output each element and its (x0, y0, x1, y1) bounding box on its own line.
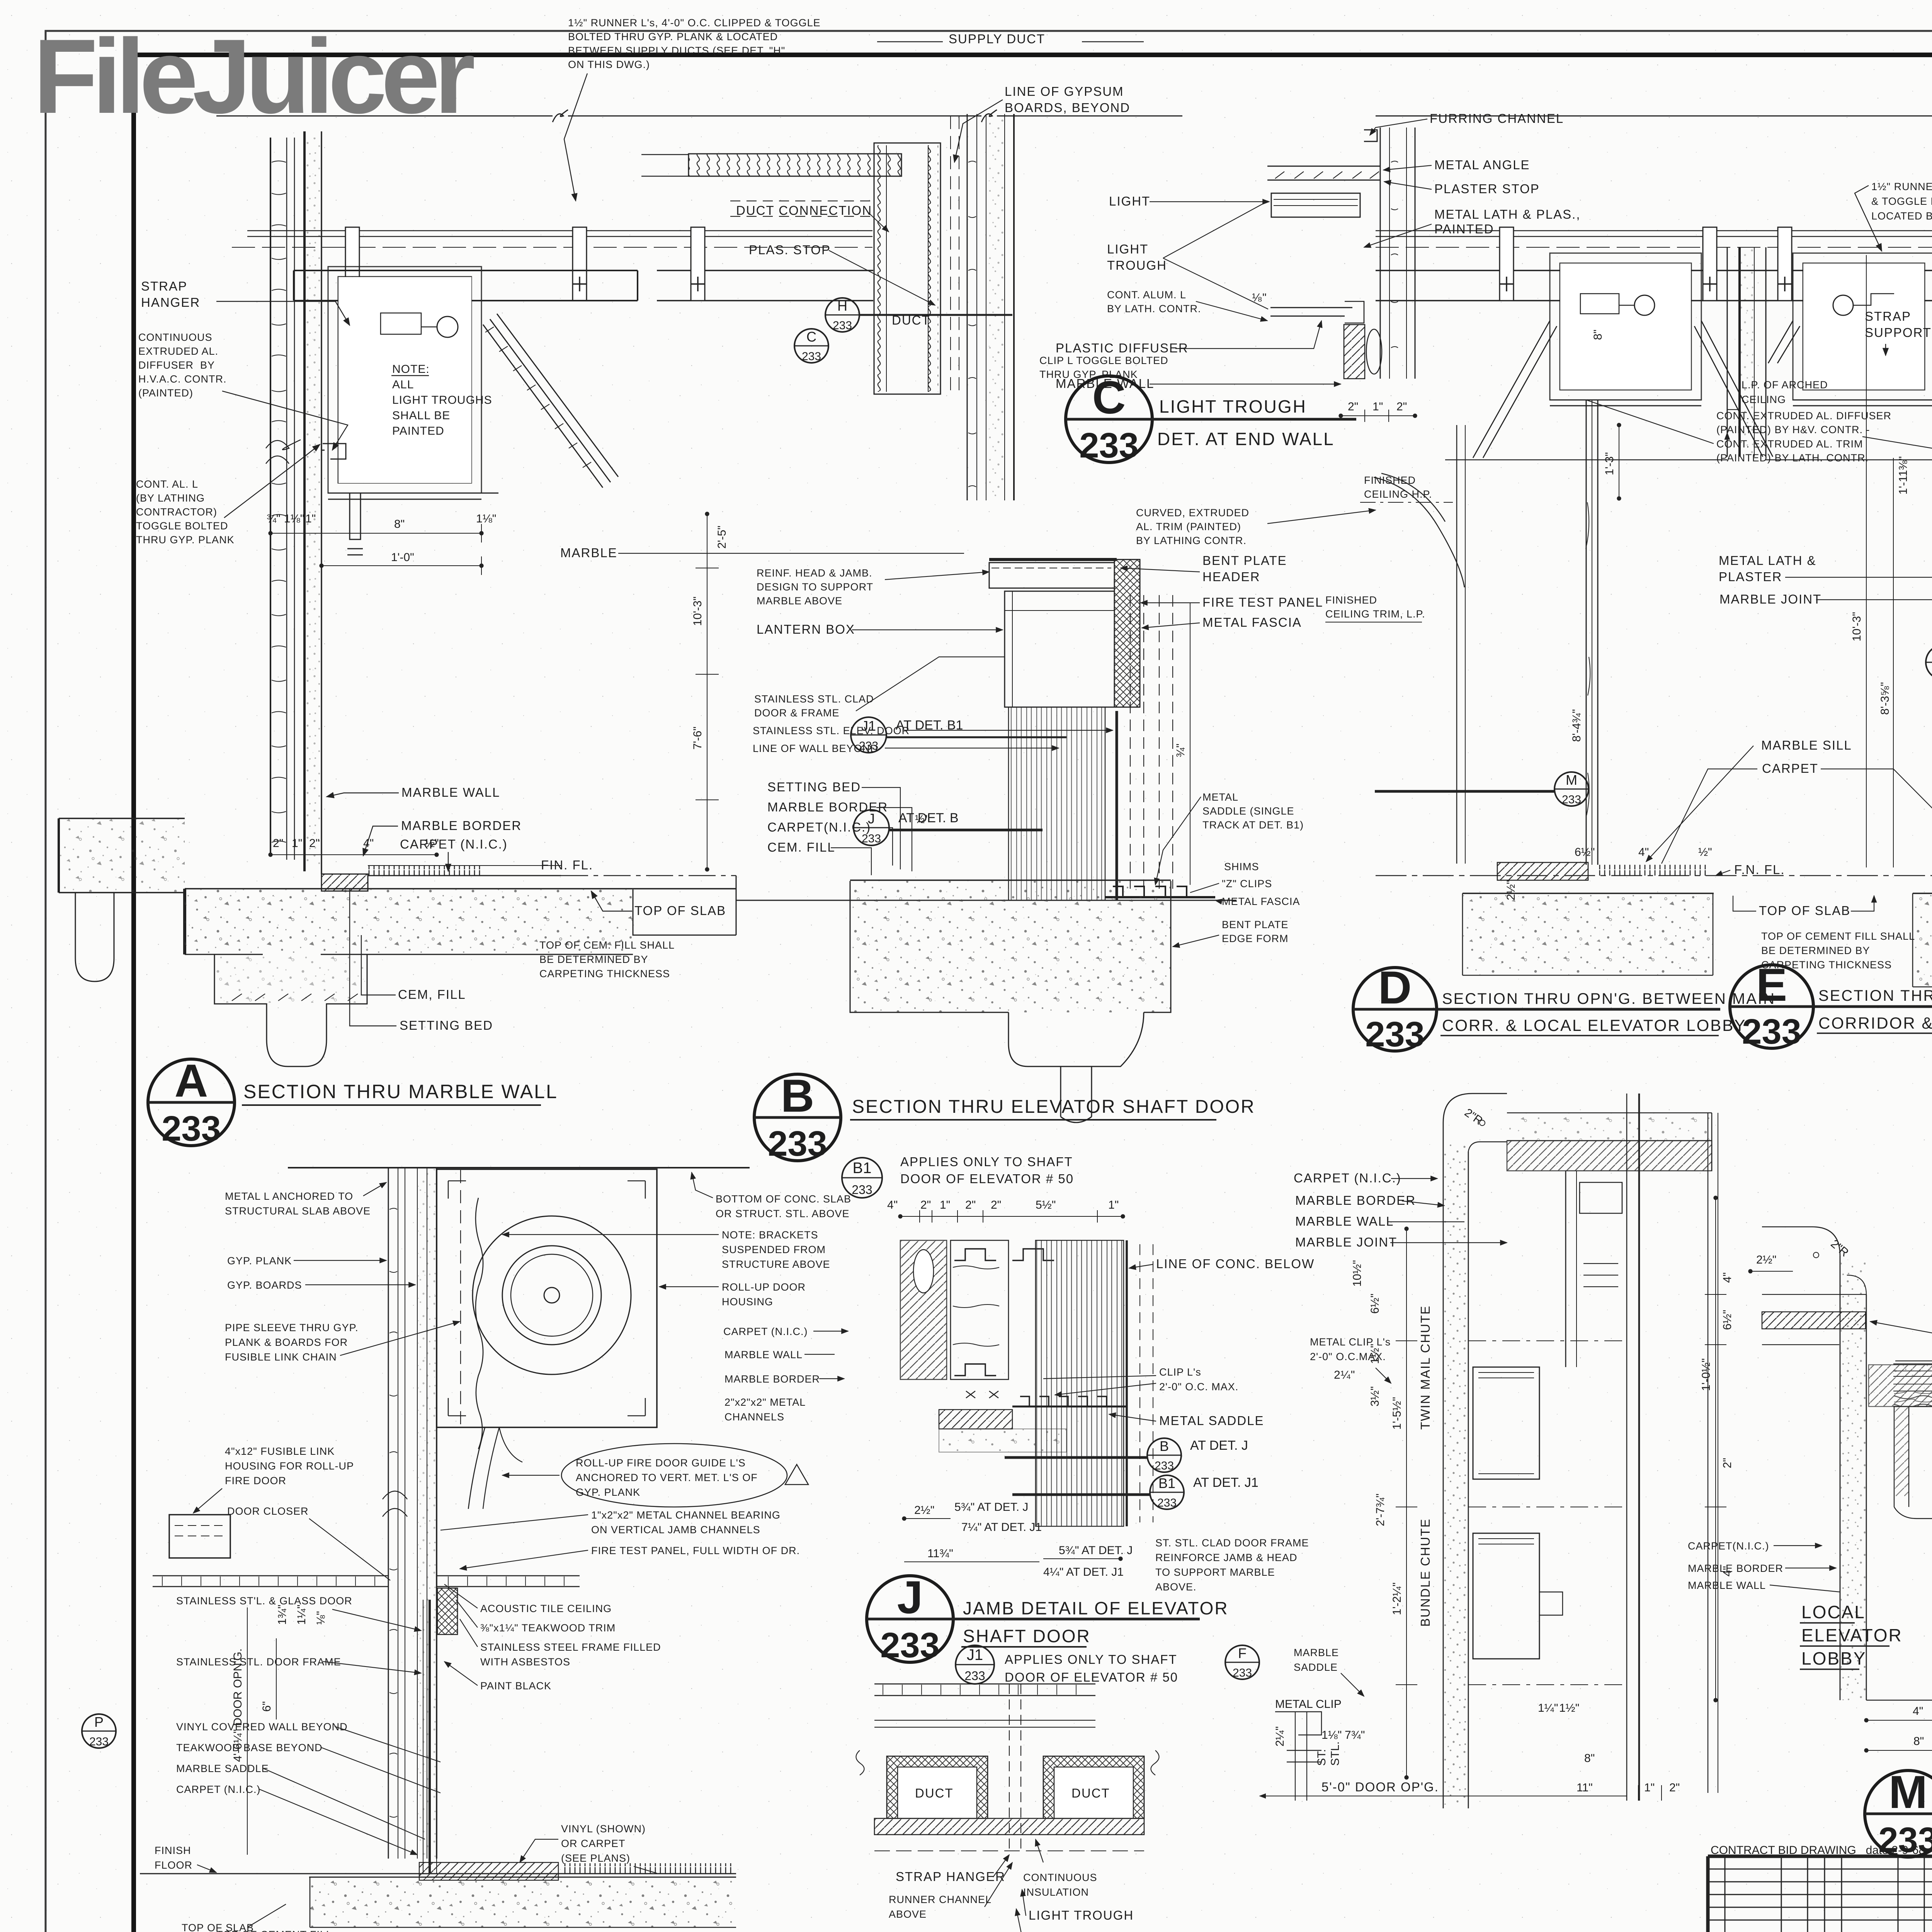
svg-text:LIGHT TROUGHS: LIGHT TROUGHS (392, 394, 492, 406)
svg-text:1½" RUNNER L's, 4'-0" O.C. CLI: 1½" RUNNER L's, 4'-0" O.C. CLIPPED & TOG… (568, 17, 821, 29)
marble bits below (939, 1410, 1012, 1429)
ref circle B at det J (1005, 1438, 1248, 1472)
left label column (136, 279, 350, 546)
svg-text:⅛": ⅛" (315, 1611, 327, 1625)
svg-text:CONT. ALUM. L: CONT. ALUM. L (1107, 289, 1186, 301)
marble sill left (1762, 1312, 1866, 1329)
svg-text:8": 8" (394, 518, 405, 531)
svg-text:METAL SADDLE: METAL SADDLE (1159, 1413, 1264, 1428)
detail circle C (1066, 372, 1356, 465)
svg-text:DESIGN TO SUPPORT: DESIGN TO SUPPORT (757, 581, 873, 593)
light trough box A (328, 267, 481, 499)
svg-text:CLIP L's: CLIP L's (1159, 1366, 1201, 1378)
svg-text:ALL: ALL (392, 378, 414, 391)
svg-text:BENT PLATE: BENT PLATE (1202, 553, 1287, 568)
dimension row under trough (270, 524, 481, 575)
vertical dims left (1406, 1229, 1407, 1777)
svg-text:ROLL-UP DOOR: ROLL-UP DOOR (722, 1281, 806, 1293)
marble wall A: vertical strips (270, 131, 321, 874)
svg-text:1": 1" (940, 1199, 950, 1211)
svg-text:LIGHT: LIGHT (1107, 242, 1148, 256)
svg-text:& TOGGLE BOLTED THRU GYPSUM PL: & TOGGLE BOLTED THRU GYPSUM PLANK AND (1871, 196, 1932, 207)
svg-text:FUSIBLE LINK CHAIN: FUSIBLE LINK CHAIN (225, 1351, 337, 1363)
svg-text:(SEE PLANS): (SEE PLANS) (561, 1852, 630, 1864)
right labels (1121, 553, 1425, 947)
detail circle H (777, 1931, 1048, 1932)
svg-text:BENT PLATE: BENT PLATE (1222, 919, 1289, 930)
svg-text:ROLL-UP FIRE DOOR GUIDE L'S: ROLL-UP FIRE DOOR GUIDE L'S (576, 1457, 746, 1469)
svg-text:GYP. PLANK: GYP. PLANK (227, 1255, 292, 1267)
right labels for ceiling zone (444, 1584, 661, 1692)
svg-text:4": 4" (1638, 846, 1649, 859)
svg-text:B: B (1160, 1438, 1169, 1454)
gypsum boards dashed verticals (951, 116, 959, 390)
svg-text:CORRIDOR & CROSS CORRIDOR: CORRIDOR & CROSS CORRIDOR (1818, 1014, 1932, 1032)
left D wall pieces (1457, 425, 1465, 864)
svg-text:MARBLE BORDER: MARBLE BORDER (1295, 1193, 1416, 1207)
center hung marble end wall (1727, 247, 1766, 457)
svg-text:"Z" CLIPS: "Z" CLIPS (1222, 878, 1272, 889)
fusible link housing box (169, 1515, 230, 1558)
ref circle M (1375, 772, 1588, 806)
svg-text:MARBLE: MARBLE (560, 546, 617, 560)
svg-text:233: 233 (880, 1626, 940, 1665)
svg-text:1½": 1½" (1559, 1702, 1579, 1714)
svg-text:DOOR & FRAME: DOOR & FRAME (754, 707, 840, 719)
svg-text:CARPET (N.I.C.): CARPET (N.I.C.) (400, 837, 508, 851)
beam channel (294, 270, 638, 301)
svg-text:EXTRUDED AL.: EXTRUDED AL. (138, 345, 218, 357)
svg-text:METAL CLIP L's: METAL CLIP L's (1310, 1336, 1391, 1348)
svg-text:4¼" AT DET. J1: 4¼" AT DET. J1 (1043, 1566, 1124, 1578)
svg-text:METAL: METAL (1202, 791, 1238, 803)
svg-text:2": 2" (965, 1199, 976, 1211)
svg-text:MARBLE BORDER: MARBLE BORDER (401, 818, 522, 833)
svg-text:SUPPORT: SUPPORT (1865, 325, 1932, 340)
svg-text:METAL FASCIA: METAL FASCIA (1222, 896, 1300, 907)
svg-text:GYP. BOARDS: GYP. BOARDS (227, 1279, 302, 1291)
curved ceiling near D left (1374, 473, 1464, 587)
svg-text:233: 233 (1157, 1497, 1177, 1509)
svg-text:LIGHT TROUGH: LIGHT TROUGH (1159, 396, 1307, 417)
svg-text:6½": 6½" (1575, 846, 1595, 859)
labels (1039, 111, 1581, 391)
svg-text:FLOOR: FLOOR (155, 1859, 192, 1871)
svg-text:JAMB DETAIL OF ELEVATOR: JAMB DETAIL OF ELEVATOR (963, 1598, 1229, 1618)
svg-text:STAINLESS STL. DOOR FRAME: STAINLESS STL. DOOR FRAME (176, 1656, 341, 1668)
left lower slab (at page edge) (59, 818, 185, 981)
svg-text:4": 4" (363, 837, 374, 850)
svg-text:BOARDS, BEYOND: BOARDS, BEYOND (1005, 100, 1130, 115)
svg-text:LINE OF CONC. BELOW: LINE OF CONC. BELOW (1156, 1257, 1315, 1271)
svg-text:BE DETERMINED BY: BE DETERMINED BY (539, 954, 648, 965)
svg-text:5¾" AT DET. J: 5¾" AT DET. J (954, 1501, 1028, 1514)
svg-text:OR CARPET: OR CARPET (561, 1838, 626, 1849)
door opg dim (1260, 1796, 1627, 1796)
svg-text:PIPE SLEEVE THRU GYP.: PIPE SLEEVE THRU GYP. (225, 1322, 359, 1333)
H labels (889, 1839, 1134, 1932)
svg-text:CONT. AL. L: CONT. AL. L (136, 478, 198, 490)
svg-text:233: 233 (1878, 1820, 1932, 1860)
8" dims top (1538, 1702, 1595, 1765)
wall break marks (266, 440, 301, 464)
ref circle H/233 (825, 298, 1012, 332)
svg-text:HEADER: HEADER (1202, 570, 1260, 584)
concentric rolls (473, 1216, 631, 1374)
svg-text:233: 233 (1079, 426, 1139, 465)
ref circle F plan (1225, 1645, 1259, 1679)
svg-text:PLASTER: PLASTER (1719, 570, 1782, 584)
bottom dims (1866, 1720, 1932, 1721)
svg-text:1": 1" (292, 837, 302, 850)
door opening dim rotated (247, 1607, 248, 1855)
svg-text:233: 233 (1155, 1459, 1174, 1472)
svg-text:CARPET (N.I.C.): CARPET (N.I.C.) (723, 1326, 808, 1337)
svg-text:SUSPENDED FROM: SUSPENDED FROM (722, 1244, 826, 1255)
svg-text:MARBLE JOINT: MARBLE JOINT (1295, 1235, 1397, 1249)
svg-text:MARBLE SADDLE: MARBLE SADDLE (176, 1763, 269, 1774)
svg-text:233: 233 (1742, 1012, 1801, 1051)
marble wall below (1344, 325, 1365, 379)
gyp plank wall verticals (388, 1168, 437, 1859)
svg-text:METAL LATH & PLAS.,: METAL LATH & PLAS., (1434, 207, 1581, 221)
svg-text:NOTE:: NOTE: (392, 363, 430, 376)
svg-text:FIRE TEST PANEL, FULL WIDTH OF: FIRE TEST PANEL, FULL WIDTH OF DR. (591, 1545, 800, 1556)
svg-text:11": 11" (1577, 1781, 1593, 1794)
top wall: marble + speckle (1507, 1113, 1712, 1141)
svg-text:BOLTED THRU GYP. PLANK & LOCAT: BOLTED THRU GYP. PLANK & LOCATED (568, 31, 778, 43)
svg-text:7¾": 7¾" (1345, 1729, 1365, 1742)
fusible chain squiggle (476, 1198, 483, 1449)
svg-text:CARPET(N.I.C.): CARPET(N.I.C.) (1688, 1540, 1769, 1552)
svg-text:DOOR OF ELEVATOR # 50: DOOR OF ELEVATOR # 50 (1005, 1670, 1178, 1684)
svg-text:SHAFT DOOR: SHAFT DOOR (963, 1626, 1091, 1646)
svg-text:LANTERN BOX: LANTERN BOX (757, 622, 855, 636)
svg-text:1½" RUNNER CHANNELS 4'-0" O.C.: 1½" RUNNER CHANNELS 4'-0" O.C. MAX. - CL… (1871, 181, 1932, 192)
ref circle J at det B (854, 810, 1043, 845)
svg-text:TOP OF CEM. FILL SHALL: TOP OF CEM. FILL SHALL (539, 939, 675, 951)
1-3 dim (1619, 425, 1619, 498)
svg-text:1"x2"x2" METAL CHANNEL BEARING: 1"x2"x2" METAL CHANNEL BEARING (591, 1509, 781, 1521)
svg-text:ON VERTICAL JAMB CHANNELS: ON VERTICAL JAMB CHANNELS (591, 1524, 760, 1536)
svg-text:VINYL COVERED WALL BEYOND: VINYL COVERED WALL BEYOND (176, 1721, 348, 1733)
svg-text:10'-3": 10'-3" (691, 597, 704, 626)
marble joint label (1719, 592, 1932, 606)
ref circle B1 at det J1 (1012, 1475, 1259, 1509)
svg-text:1⅛": 1⅛" (476, 512, 496, 525)
svg-text:233: 233 (1562, 793, 1581, 806)
svg-text:P: P (94, 1714, 104, 1730)
svg-text:TOP OF SLAB: TOP OF SLAB (1759, 903, 1850, 918)
svg-text:PLASTER STOP: PLASTER STOP (1434, 182, 1540, 196)
svg-text:CONTINUOUS: CONTINUOUS (1023, 1872, 1097, 1883)
svg-text:DUCT CONNECTION: DUCT CONNECTION (736, 203, 872, 218)
svg-text:(PAINTED) BY LATH. CONTR.: (PAINTED) BY LATH. CONTR. (1716, 452, 1869, 464)
svg-text:INSULATION: INSULATION (1023, 1886, 1089, 1898)
runner note (1855, 181, 1932, 251)
svg-text:THRU GYP. PLANK: THRU GYP. PLANK (136, 534, 235, 546)
svg-text:5'-0" DOOR OP'G.: 5'-0" DOOR OP'G. (1321, 1780, 1439, 1794)
svg-text:1": 1" (1372, 400, 1383, 413)
svg-text:FINISHED: FINISHED (1325, 594, 1377, 606)
svg-text:ANCHORED TO VERT. MET. L'S OF: ANCHORED TO VERT. MET. L'S OF (576, 1472, 758, 1483)
beam channel (1376, 270, 1932, 301)
dashed track line (460, 1170, 461, 1429)
D marble wall strip (1586, 400, 1598, 865)
svg-text:1⅛": 1⅛" (1321, 1729, 1342, 1742)
svg-text:TOP OF SLAB: TOP OF SLAB (634, 903, 726, 918)
NOTE text in trough (391, 363, 492, 437)
svg-text:MARBLE WALL: MARBLE WALL (1688, 1580, 1766, 1591)
svg-text:2": 2" (273, 837, 283, 850)
svg-text:2½": 2½" (1756, 1253, 1776, 1266)
svg-text:2": 2" (1721, 1458, 1734, 1468)
svg-text:MARBLE WALL: MARBLE WALL (401, 785, 500, 799)
line of gypsum boards label (1005, 84, 1130, 115)
svg-text:CEILING TRIM, L.P.: CEILING TRIM, L.P. (1325, 608, 1425, 620)
svg-text:BETWEEN SUPPLY DUCTS (SEE DET.: BETWEEN SUPPLY DUCTS (SEE DET. "H" (568, 45, 785, 56)
svg-text:1": 1" (1644, 1781, 1655, 1794)
ref circle B1 near B (842, 1158, 882, 1198)
svg-text:MARBLE ABOVE: MARBLE ABOVE (757, 595, 842, 607)
title B (850, 1097, 1255, 1120)
svg-text:H: H (837, 298, 847, 314)
svg-text:METAL FASCIA: METAL FASCIA (1202, 615, 1302, 629)
svg-text:1⅛": 1⅛" (284, 512, 304, 525)
B blocks (900, 1240, 947, 1379)
svg-text:8'-4¾": 8'-4¾" (1570, 709, 1583, 742)
duct 2 (1043, 1756, 1144, 1818)
svg-text:CARPET (N.I.C.): CARPET (N.I.C.) (176, 1784, 261, 1795)
svg-text:CONTINUOUS: CONTINUOUS (138, 332, 213, 343)
svg-text:TOP OF CEMENT FILL SHALL: TOP OF CEMENT FILL SHALL (1761, 930, 1915, 942)
E dim verticals (1866, 255, 1867, 867)
svg-text:MARBLE WALL: MARBLE WALL (724, 1349, 803, 1361)
1.5" runner note (under watermark) (564, 17, 821, 201)
left vertical dims (1715, 1198, 1716, 1700)
svg-text:6": 6" (260, 1701, 273, 1712)
svg-text:AT DET. J: AT DET. J (1190, 1438, 1248, 1453)
svg-text:AT DET. B: AT DET. B (898, 811, 959, 825)
svg-text:DUCT: DUCT (1071, 1786, 1110, 1800)
svg-text:TO SUPPORT MARBLE: TO SUPPORT MARBLE (1155, 1566, 1275, 1578)
light trough box D2 (1768, 253, 1932, 406)
dims small stack (276, 1605, 327, 1625)
svg-text:⅛": ⅛" (1252, 291, 1267, 304)
svg-text:LIGHT TROUGH: LIGHT TROUGH (1029, 1908, 1134, 1922)
svg-text:SHALL BE: SHALL BE (392, 409, 450, 422)
svg-text:(PAINTED): (PAINTED) (138, 387, 193, 399)
svg-text:CONT. EXTRUDED AL. DIFFUSER: CONT. EXTRUDED AL. DIFFUSER (1716, 410, 1891, 422)
striped shaft door (1036, 1240, 1124, 1526)
svg-text:TOGGLE BOLTED: TOGGLE BOLTED (136, 520, 228, 532)
svg-text:7'-6": 7'-6" (691, 726, 704, 750)
ceiling plate (1267, 166, 1380, 180)
svg-text:4": 4" (1721, 1272, 1734, 1283)
vertical supply duct (874, 143, 940, 394)
labels right of B (1043, 1257, 1315, 1428)
svg-text:10'-3": 10'-3" (1850, 612, 1863, 641)
svg-text:SHIMS: SHIMS (1224, 861, 1259, 872)
carpet/ marble labels bottom left of plan (1688, 1540, 1840, 1592)
svg-text:J1: J1 (967, 1646, 983, 1663)
svg-text:1'-3": 1'-3" (1603, 452, 1616, 475)
svg-text:FIN. FL.: FIN. FL. (541, 858, 593, 872)
svg-text:6½": 6½" (1369, 1294, 1381, 1314)
left vertical wall + corner (1840, 1256, 1866, 1700)
svg-text:LINE OF GYPSUM: LINE OF GYPSUM (1005, 84, 1124, 99)
svg-text:¾": ¾" (267, 512, 281, 525)
svg-text:CARPET: CARPET (1762, 761, 1818, 776)
svg-text:SECTION THRU ELEVATOR SHAFT DO: SECTION THRU ELEVATOR SHAFT DOOR (852, 1097, 1255, 1117)
svg-text:ST.: ST. (1315, 1749, 1328, 1766)
svg-text:OR STRUCT. STL. ABOVE: OR STRUCT. STL. ABOVE (716, 1208, 850, 1219)
svg-text:8": 8" (1592, 330, 1604, 340)
svg-text:2'-5": 2'-5" (716, 526, 728, 549)
svg-text:STAINLESS ST'L. & GLASS DOOR: STAINLESS ST'L. & GLASS DOOR (176, 1595, 352, 1607)
svg-text:½": ½" (1698, 846, 1712, 859)
svg-text:STAINLESS STL. CLAD: STAINLESS STL. CLAD (754, 693, 874, 705)
strap support label (1865, 309, 1932, 355)
svg-text:233: 233 (833, 319, 852, 332)
vertical dim chain mid (696, 514, 719, 869)
svg-text:1'-0½": 1'-0½" (1700, 1358, 1713, 1391)
svg-text:PAINTED: PAINTED (1434, 222, 1494, 236)
svg-text:CEILING: CEILING (1742, 394, 1786, 405)
K detail left labels (176, 1595, 440, 1855)
labels left stack (1870, 1321, 1932, 1410)
svg-text:METAL L ANCHORED TO: METAL L ANCHORED TO (225, 1190, 353, 1202)
svg-text:ELEVATOR: ELEVATOR (1801, 1625, 1903, 1645)
svg-text:8'-3⅝": 8'-3⅝" (1879, 682, 1891, 715)
svg-text:4'-6¼" DOOR OPN'G.: 4'-6¼" DOOR OPN'G. (231, 1648, 244, 1762)
detail circle J (867, 1571, 1200, 1665)
svg-text:AL. TRIM (PAINTED): AL. TRIM (PAINTED) (1136, 521, 1241, 532)
svg-text:2'-7¾": 2'-7¾" (1374, 1493, 1387, 1526)
marble sills (hatch) (1497, 862, 1588, 880)
svg-text:PLAS. STOP: PLAS. STOP (749, 243, 831, 257)
svg-text:2": 2" (1669, 1781, 1680, 1794)
title J (961, 1598, 1229, 1647)
corridor wall band vertical (1443, 1122, 1468, 1808)
svg-text:CONTRACTOR): CONTRACTOR) (136, 506, 217, 518)
J1 applies note (1005, 1652, 1178, 1684)
elevator head: bent plate header / hatch / lantern box (989, 560, 1140, 707)
svg-text:2¼": 2¼" (1274, 1726, 1286, 1747)
metal clip note (1310, 1336, 1391, 1383)
svg-text:CORR. & LOCAL ELEVATOR LOBBY: CORR. & LOCAL ELEVATOR LOBBY (1442, 1016, 1746, 1034)
door leaf (423, 1600, 423, 1874)
svg-text:½": ½" (425, 837, 439, 850)
svg-text:FileJuicer: FileJuicer (33, 17, 474, 136)
svg-text:7¼" AT DET. J1: 7¼" AT DET. J1 (961, 1521, 1042, 1534)
svg-text:STL.: STL. (1329, 1742, 1342, 1766)
svg-text:MARBLE BORDER: MARBLE BORDER (724, 1373, 820, 1385)
svg-text:1'-0": 1'-0" (391, 551, 414, 564)
detail circle A (148, 1055, 235, 1148)
svg-text:HANGER: HANGER (141, 295, 200, 310)
svg-text:233: 233 (1233, 1667, 1252, 1679)
central corridor wall (horizontal) (1893, 1364, 1932, 1406)
svg-text:11¾": 11¾" (927, 1547, 953, 1560)
svg-text:8": 8" (1584, 1752, 1595, 1765)
svg-text:1¾": 1¾" (276, 1605, 289, 1625)
carpet bands (1596, 865, 1706, 876)
slab below elevator (850, 880, 1171, 1122)
svg-text:B: B (781, 1070, 815, 1122)
title C (1157, 396, 1335, 449)
svg-text:1'-11⅜": 1'-11⅜" (1897, 456, 1910, 495)
ref circle J1 near J (956, 1645, 994, 1684)
svg-text:FINISH: FINISH (155, 1845, 191, 1856)
vinyl shown or carpet note (520, 1823, 657, 1873)
svg-text:SETTING BED: SETTING BED (767, 780, 861, 794)
B1 applies note (900, 1155, 1074, 1186)
svg-text:MARBLE: MARBLE (1294, 1647, 1339, 1658)
ref circle P in K detail (82, 1714, 116, 1748)
hanger plate 1 (345, 227, 360, 301)
svg-text:233: 233 (1365, 1015, 1425, 1054)
svg-text:AT DET. J1: AT DET. J1 (1193, 1475, 1259, 1490)
svg-text:SECTION THRU MARBLE WALL: SECTION THRU MARBLE WALL (243, 1081, 558, 1102)
H detail: plan thru light trough + duct (856, 1684, 1159, 1851)
twin mail chute box (1473, 1367, 1539, 1479)
svg-text:TWIN MAIL CHUTE: TWIN MAIL CHUTE (1418, 1305, 1432, 1430)
svg-text:MARBLE JOINT: MARBLE JOINT (1719, 592, 1821, 606)
bottom hatched band (874, 1818, 1144, 1835)
svg-text:LOCATED BETWEEN SUPPLY DUCTS -: LOCATED BETWEEN SUPPLY DUCTS - SEE DET '… (1871, 210, 1932, 222)
detail circle D (1353, 962, 1720, 1054)
svg-text:REINFORCE JAMB & HEAD: REINFORCE JAMB & HEAD (1155, 1552, 1298, 1563)
svg-text:B1: B1 (1158, 1475, 1175, 1491)
svg-text:2'-0" O.C.MAX.: 2'-0" O.C.MAX. (1310, 1351, 1386, 1362)
svg-text:ACOUSTIC TILE CEILING: ACOUSTIC TILE CEILING (480, 1603, 612, 1614)
svg-text:6½": 6½" (1721, 1310, 1734, 1330)
svg-text:SETTING BED: SETTING BED (400, 1018, 493, 1032)
wall plank wavy texture (272, 161, 286, 843)
slabs (1463, 893, 1932, 987)
svg-text:5¾" AT DET. J: 5¾" AT DET. J (1059, 1544, 1133, 1557)
svg-text:233: 233 (802, 350, 821, 363)
slab K (309, 1877, 736, 1878)
structural slab above line (216, 116, 1182, 117)
detail circle E (1730, 959, 1932, 1051)
svg-text:B1: B1 (853, 1160, 872, 1177)
LP of arched ceiling lines (1445, 459, 1932, 461)
svg-text:CARPETING THICKNESS: CARPETING THICKNESS (539, 968, 670, 980)
svg-text:METAL CLIP: METAL CLIP (1275, 1698, 1342, 1711)
local elevator lobby (1801, 1602, 1903, 1668)
svg-text:233: 233 (852, 1183, 872, 1197)
svg-text:¾": ¾" (1174, 743, 1187, 757)
svg-text:FIRE DOOR: FIRE DOOR (225, 1475, 286, 1486)
svg-text:3½": 3½" (1369, 1386, 1381, 1406)
center dashed (1009, 1684, 1021, 1851)
metal lath plaster label left (1719, 553, 1932, 584)
svg-text:SADDLE (SINGLE: SADDLE (SINGLE (1202, 805, 1294, 817)
detail circle M (1865, 1766, 1932, 1860)
svg-text:SECTION THRU OPN'G. BETWEEN MA: SECTION THRU OPN'G. BETWEEN MAIN (1442, 990, 1776, 1007)
svg-text:1'-2¼": 1'-2¼" (1391, 1582, 1403, 1615)
svg-text:STRAP HANGER: STRAP HANGER (896, 1869, 1005, 1884)
svg-text:STRAP: STRAP (141, 279, 187, 293)
floor: fin fl line (1376, 875, 1932, 876)
ceiling runner lines (247, 231, 872, 236)
ceiling w/ acoustic tile (153, 1576, 388, 1587)
svg-text:1'-5½": 1'-5½" (1391, 1397, 1403, 1430)
light trough box D1 (1473, 253, 1773, 458)
svg-text:MARBLE WALL: MARBLE WALL (1295, 1214, 1394, 1228)
